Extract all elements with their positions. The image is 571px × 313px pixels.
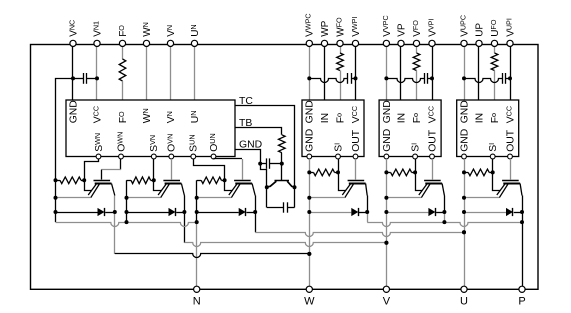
svg-text:GND: GND [459, 129, 470, 152]
U1 pin circle SUN [191, 154, 196, 159]
wire emitter V to column [386, 197, 421, 199]
diode D (high-side U) [464, 208, 522, 216]
terminal label V [383, 296, 391, 308]
junction column/diode W [307, 210, 311, 214]
junction column/resistor U [462, 170, 466, 174]
HVIC V pin label GND [382, 100, 393, 123]
HVIC U pin label VCC [504, 106, 516, 123]
terminal UP [476, 40, 482, 46]
HVIC W pin label VCC [350, 106, 362, 123]
HVIC V pin circle [384, 154, 389, 159]
U1 pin label FO [117, 111, 129, 123]
U1 pin label VCC [91, 106, 103, 123]
junction rail/emitter V [125, 196, 129, 200]
wire N-side sense rail W (lower) [55, 180, 57, 222]
HVIC W pin label Fo [334, 113, 346, 123]
wire base lead [281, 164, 283, 181]
resistor R1 (FO pull-up, LVIC) [119, 59, 126, 81]
wire V output column [386, 159, 388, 286]
terminal WFO [337, 40, 343, 46]
svg-text:GND: GND [68, 100, 79, 123]
HVIC U pin circle [508, 154, 513, 159]
wire OVN pin to gate [171, 159, 173, 180]
svg-text:OUT: OUT [351, 129, 362, 152]
resistor R (high-side U gate) [464, 169, 493, 176]
svg-text:VP: VP [396, 23, 407, 37]
junction column/resistor V [384, 170, 388, 174]
wire S pin to resistor W [338, 159, 340, 173]
terminal FO [119, 40, 125, 46]
terminal label VN [165, 25, 177, 37]
junction GND/C2 [258, 162, 262, 166]
HVIC V pin label Fo [411, 113, 423, 123]
HVIC V pin label SI [410, 143, 422, 152]
HVIC W pin label GND [305, 100, 316, 123]
HVIC V pin circle [413, 154, 418, 159]
resistor R (WFO) [337, 53, 344, 71]
op-amp U1 (LVIC control IC box) [66, 100, 235, 157]
svg-text:GND: GND [305, 129, 316, 152]
U1 pin circle OVN [169, 154, 174, 159]
wire SVN pin to resistor [153, 159, 155, 180]
junction diode/collector V [182, 210, 186, 214]
junction cap/VWPI [354, 76, 358, 80]
wire OUN pin drop [213, 158, 215, 160]
svg-text:OUT: OUT [427, 129, 438, 152]
diode D (low-side W) [56, 208, 115, 216]
wire V collector to P bus [444, 212, 446, 222]
junction SUN/resistor [223, 178, 227, 182]
transistor Q7 (temp sense BJT) [267, 181, 295, 187]
terminal label VUPC [458, 15, 470, 37]
wire collector W down [114, 212, 116, 254]
HVIC W pin label SI [332, 143, 344, 152]
svg-text:U: U [460, 296, 468, 308]
terminal label UP [474, 23, 485, 37]
svg-text:N: N [193, 296, 201, 308]
wire P drop [522, 212, 524, 286]
wire emitter U to column [464, 197, 499, 199]
wire U phase link [255, 233, 464, 237]
terminal label VWPI [350, 17, 362, 37]
junction cap/VVPI [430, 76, 434, 80]
wire resistor to HVIC FO pin [494, 71, 496, 101]
wire SUN pin jog [194, 159, 225, 180]
junction diode/collector W [365, 210, 369, 214]
wire VUPC terminal to HVIC [464, 46, 466, 100]
HVIC V pin label OUT [427, 129, 438, 152]
svg-text:IN: IN [396, 113, 407, 123]
wire VVPC terminal to HVIC [386, 46, 388, 100]
terminal VWPC [306, 40, 312, 46]
junction U column / U link [462, 230, 466, 234]
terminal P [519, 286, 525, 292]
U1 pin label SWN [93, 133, 105, 152]
svg-text:IN: IN [474, 113, 485, 123]
junction N bus / N drop [195, 220, 199, 224]
svg-text:UP: UP [474, 23, 485, 37]
wire P bus [367, 212, 522, 227]
terminal VN [167, 40, 173, 46]
wire resistor to HVIC FO pin [416, 71, 418, 101]
wire sense lead U [225, 180, 233, 190]
wire VP terminal to HVIC IN [400, 46, 402, 100]
terminal VWPI [352, 40, 358, 46]
wire collector V [184, 196, 186, 213]
junction W column / W link [307, 252, 311, 256]
U1 pin label OWN [115, 132, 127, 152]
terminal label UN [189, 24, 201, 36]
U1 pin label SUN [188, 134, 200, 151]
junction diode/collector U [253, 210, 257, 214]
wire emitter W to rail [56, 197, 91, 199]
U1 pin label UN [189, 111, 201, 124]
terminal VVPC [383, 40, 389, 46]
terminal U [461, 286, 467, 292]
junction collector node [293, 185, 297, 189]
wire OWN jog [101, 169, 121, 171]
wire VN terminal to LVIC VN pin [170, 46, 172, 100]
resistor R2 (TB network) [279, 135, 286, 153]
wire UFO terminal to resistor [494, 46, 496, 53]
HVIC U pin circle [462, 154, 467, 159]
junction V link / V column [384, 241, 388, 245]
wire VVPI terminal to HVIC VCC [432, 46, 434, 100]
wire sense rail U [196, 180, 198, 222]
wire sense lead W [85, 180, 92, 190]
wire WN terminal to LVIC WN pin [146, 46, 148, 100]
wire bootstrap cap W [309, 79, 347, 83]
wire OWN pin drop [120, 159, 122, 170]
svg-text:GND: GND [305, 100, 316, 123]
HVIC W pin circle [307, 154, 312, 159]
junction cap/VUPC [462, 76, 466, 80]
junction SVN/resistor [152, 178, 156, 182]
U1 pin label GND [68, 100, 79, 123]
op-amp U (W-phase HVIC box) [302, 100, 364, 157]
terminal label P [518, 296, 525, 308]
terminal WP [321, 40, 327, 46]
HVIC U pin label Fo [489, 113, 501, 123]
package outline (module boundary) [31, 45, 539, 290]
terminal UFO [491, 40, 497, 46]
terminal label N [193, 296, 201, 308]
wire FO terminal to resistor [122, 46, 124, 59]
HVIC W pin circle [353, 154, 358, 159]
wire emitter U to rail [197, 197, 232, 199]
wire resistor to node [281, 153, 283, 164]
junction U link / U column [462, 230, 466, 234]
junction column/emitter U [462, 196, 466, 200]
wire VFO terminal to resistor [416, 46, 418, 53]
HVIC U pin label GND [459, 100, 470, 123]
terminal W [306, 286, 312, 292]
junction P bus / P drop [520, 220, 524, 224]
svg-text:WP: WP [320, 20, 331, 36]
svg-text:GND: GND [459, 100, 470, 123]
junction column/emitter W [307, 196, 311, 200]
junction column/resistor W [307, 170, 311, 174]
junction S/resistor U [491, 170, 495, 174]
wire V phase link [184, 243, 386, 247]
terminal label VVPC [381, 15, 393, 36]
wire sense lead V [416, 172, 423, 190]
HVIC V pin label VCC [426, 106, 438, 123]
terminal label VP [396, 23, 407, 37]
U1 pin label VN [165, 111, 177, 123]
wire GND stub [235, 150, 261, 164]
svg-text:V: V [383, 296, 391, 308]
junction rail/diode V [125, 210, 129, 214]
junction cap/VWPC [307, 76, 311, 80]
transistor Q (high-side IGBT W) [342, 181, 367, 198]
terminal N [194, 286, 200, 292]
junction W link / W column [307, 252, 311, 256]
capacitor C (V bootstrap) [425, 73, 433, 84]
wire GND to emitter [261, 164, 267, 188]
HVIC W pin circle [336, 154, 341, 159]
HVIC U pin label GND [459, 129, 470, 152]
capacitor C2 (temp sense) [260, 158, 282, 168]
wire OUT pin to gate V [432, 159, 434, 180]
wire gate lead U [242, 159, 244, 180]
terminal label VVPI [426, 19, 438, 37]
junction cap/VVPC [384, 76, 388, 80]
wire resistor to LVIC FO pin [122, 81, 124, 100]
wire WFO terminal to resistor [340, 46, 342, 53]
wire TB stub [235, 128, 282, 135]
terminal VVPI [429, 40, 435, 46]
junction column/diode U [462, 210, 466, 214]
resistor R (UFO) [491, 53, 498, 71]
HVIC V pin circle [430, 154, 435, 159]
junction rail/resistor W [54, 178, 58, 182]
wire collector W [114, 196, 116, 213]
wire OUT pin to gate U [510, 159, 512, 180]
junction rail/emitter W [54, 196, 58, 200]
wire collector V down [184, 212, 186, 243]
wire S pin to resistor V [415, 159, 417, 173]
wire sense lead V [154, 180, 162, 190]
terminal label VNC [67, 20, 79, 37]
resistor R (high-side W gate) [309, 169, 338, 176]
wire W phase link [115, 254, 309, 258]
svg-text:GND: GND [382, 129, 393, 152]
terminal label UFO [489, 19, 501, 37]
U1 pin circle SWN [96, 154, 101, 159]
terminal VUPC [461, 40, 467, 46]
U1 pin circle OWN [119, 154, 124, 159]
wire OUT pin to gate W [355, 159, 357, 180]
terminal label VUPI [504, 18, 516, 37]
terminal V [383, 286, 389, 292]
resistor R (low-side W gate) [56, 177, 85, 184]
capacitor C (U bootstrap) [503, 73, 511, 84]
wire VWPI terminal to HVIC VCC [355, 46, 357, 100]
junction rail/emitter U [195, 196, 199, 200]
diode D (low-side V) [127, 208, 185, 216]
svg-text:IN: IN [320, 113, 331, 123]
svg-text:GND: GND [382, 100, 393, 123]
junction SWN/resistor [82, 178, 86, 182]
junction S/resistor W [336, 170, 340, 174]
svg-text:P: P [518, 296, 525, 308]
wire emitter V to rail [127, 197, 161, 199]
HVIC W pin label IN [320, 113, 331, 123]
terminal label FO [117, 25, 129, 37]
resistor R (high-side V gate) [386, 169, 415, 176]
wire WP terminal to HVIC IN [324, 46, 326, 100]
junction emitter node [265, 185, 269, 189]
terminal label U [460, 296, 468, 308]
U1 pin label SVN [148, 135, 160, 152]
wire sense lead W [339, 172, 346, 190]
terminal WN [143, 40, 149, 46]
junction P bus / V collector [442, 220, 446, 224]
HVIC W pin label OUT [351, 129, 362, 152]
U1 pin label TC [239, 96, 253, 107]
U1 pin label OUN [208, 133, 220, 151]
terminal label WN [141, 22, 153, 37]
HVIC U pin circle [490, 154, 495, 159]
transistor Q (low-side IGBT W) [88, 181, 115, 198]
wire N-side sense rail (top segment from cap node) [56, 79, 74, 181]
resistor R (low-side V gate) [127, 177, 154, 184]
HVIC W pin label GND [305, 129, 316, 152]
wire SWN pin jog [85, 159, 99, 180]
U1 pin circle OUN [211, 154, 216, 159]
transistor Q (high-side IGBT U) [497, 181, 522, 198]
U1 pin label WN [141, 108, 153, 123]
junction N bus / V rail [125, 220, 129, 224]
wire VN1 terminal to LVIC VCC pin [96, 46, 98, 100]
wire collector U [522, 196, 524, 213]
wire N bus [56, 223, 197, 227]
wire bootstrap cap U [464, 79, 502, 83]
HVIC U pin label OUT [505, 129, 516, 152]
wire collector V [444, 196, 446, 213]
junction cap/VUPI [508, 76, 512, 80]
HVIC U pin label SI [487, 143, 499, 152]
terminal VUPI [507, 40, 513, 46]
U1 pin circle SVN [151, 154, 156, 159]
wire VUPI terminal to HVIC VCC [510, 46, 512, 100]
wire UN terminal to LVIC UN pin [194, 46, 196, 100]
junction rail/diode W [54, 210, 58, 214]
terminal label VWPC [304, 13, 316, 36]
wire emitter W to column [309, 197, 345, 199]
resistor R (VFO) [413, 53, 420, 71]
op-amp U (U-phase HVIC box) [457, 100, 519, 157]
capacitor C (W bootstrap) [348, 73, 356, 84]
terminal label WFO [334, 17, 346, 37]
junction S/resistor V [413, 170, 417, 174]
wire bootstrap cap V [386, 79, 424, 83]
wire sense lead U [493, 172, 501, 190]
U1 pin label GND [239, 140, 262, 151]
capacitor C3 (TC filter) [267, 202, 295, 212]
junction column/diode V [384, 210, 388, 214]
wire VNC terminal to LVIC GND pin [72, 46, 74, 100]
terminal UN [191, 40, 197, 46]
terminal VN1 [94, 40, 100, 46]
wire N drop [196, 222, 198, 286]
junction diode/collector W [113, 210, 117, 214]
wire UP terminal to HVIC IN [478, 46, 480, 100]
junction on VNC line [71, 76, 75, 80]
transistor Q (low-side IGBT V) [158, 181, 184, 198]
terminal VFO [413, 40, 419, 46]
wire collector U down [255, 212, 257, 232]
HVIC U pin label IN [474, 113, 485, 123]
junction on VN1 line [95, 76, 99, 80]
resistor R (low-side U gate) [197, 177, 225, 184]
terminal label VFO [411, 20, 423, 37]
HVIC V pin label GND [382, 129, 393, 152]
wire S pin to resistor U [492, 159, 494, 173]
wire gate lead W [101, 170, 103, 180]
diode D (high-side V) [386, 208, 444, 216]
junction diode/collector V [442, 210, 446, 214]
terminal VP [398, 40, 404, 46]
wire collector down to C3 [294, 187, 296, 207]
wire collector U [255, 196, 257, 213]
terminal label VN1 [91, 21, 103, 37]
wire VWPC terminal to HVIC [309, 46, 311, 100]
U1 pin label OVN [166, 134, 178, 152]
transistor Q (low-side IGBT U) [229, 181, 255, 198]
junction rail/diode U [195, 210, 199, 214]
junction column/emitter V [384, 196, 388, 200]
wire collector W [367, 196, 369, 213]
svg-text:W: W [304, 296, 315, 308]
terminal VNC [70, 40, 76, 46]
wire TC stub [235, 106, 295, 188]
wire W output column [309, 159, 311, 286]
wire OUN jog [214, 158, 243, 160]
capacitor C1 (VNC-VN1) [73, 73, 97, 84]
junction TB/C2/base [280, 162, 284, 166]
diode D (high-side W) [309, 208, 367, 216]
transistor Q (high-side IGBT V) [419, 181, 445, 198]
diode D (low-side U) [197, 208, 256, 216]
HVIC V pin label IN [396, 113, 407, 123]
wire U output column [464, 159, 466, 286]
wire resistor to HVIC FO pin [340, 71, 342, 101]
junction V column / V link [384, 241, 388, 245]
wire sense rail V [126, 180, 128, 222]
terminal label WP [320, 20, 331, 36]
junction diode/collector U [520, 210, 524, 214]
wire emitter down to C3 [266, 187, 268, 207]
U1 pin label TB [239, 118, 252, 129]
op-amp U (V-phase HVIC box) [379, 100, 441, 157]
svg-text:OUT: OUT [505, 129, 516, 152]
terminal label W [304, 296, 315, 308]
